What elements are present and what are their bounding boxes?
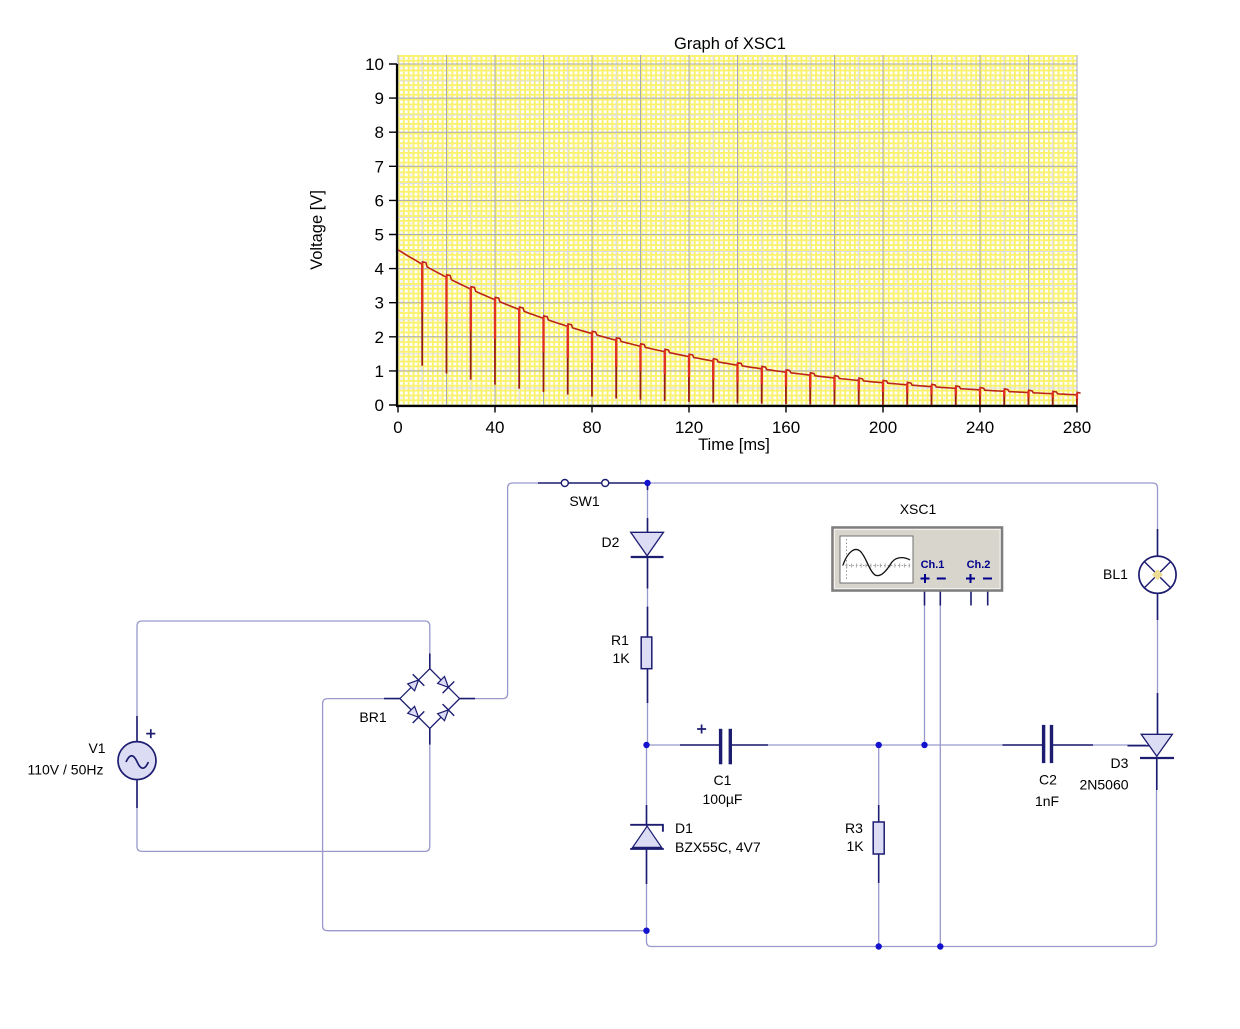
svg-text:Ch.1: Ch.1 — [921, 559, 945, 571]
svg-text:2N5060: 2N5060 — [1079, 777, 1128, 793]
svg-text:240: 240 — [966, 418, 994, 437]
svg-text:280: 280 — [1063, 418, 1091, 437]
svg-text:8: 8 — [375, 123, 384, 142]
svg-text:D1: D1 — [675, 820, 693, 836]
svg-text:160: 160 — [772, 418, 800, 437]
svg-text:1nF: 1nF — [1035, 793, 1059, 809]
svg-text:XSC1: XSC1 — [900, 501, 937, 517]
svg-text:BZX55C, 4V7: BZX55C, 4V7 — [675, 839, 761, 855]
svg-text:80: 80 — [583, 418, 602, 437]
svg-text:D3: D3 — [1111, 755, 1129, 771]
svg-text:BL1: BL1 — [1103, 566, 1128, 582]
svg-text:3: 3 — [375, 294, 384, 313]
svg-text:0: 0 — [393, 418, 402, 437]
svg-text:BR1: BR1 — [359, 709, 386, 725]
svg-text:100µF: 100µF — [703, 791, 743, 807]
svg-text:7: 7 — [375, 157, 384, 176]
svg-text:1: 1 — [375, 362, 384, 381]
svg-text:200: 200 — [869, 418, 897, 437]
svg-text:1K: 1K — [612, 650, 630, 666]
svg-text:Graph of XSC1: Graph of XSC1 — [674, 35, 786, 53]
svg-text:120: 120 — [675, 418, 703, 437]
svg-text:9: 9 — [375, 89, 384, 108]
svg-text:V1: V1 — [88, 740, 105, 756]
svg-text:5: 5 — [375, 226, 384, 245]
svg-text:Voltage [V]: Voltage [V] — [308, 190, 326, 270]
svg-text:R3: R3 — [845, 820, 863, 836]
svg-text:Time [ms]: Time [ms] — [698, 436, 770, 454]
svg-text:0: 0 — [375, 396, 384, 415]
svg-text:1K: 1K — [846, 838, 864, 854]
svg-text:C1: C1 — [714, 772, 732, 788]
svg-text:Ch.2: Ch.2 — [967, 559, 991, 571]
svg-text:4: 4 — [375, 260, 384, 279]
svg-text:2: 2 — [375, 328, 384, 347]
svg-text:R1: R1 — [611, 632, 629, 648]
svg-text:6: 6 — [375, 191, 384, 210]
svg-text:D2: D2 — [602, 534, 620, 550]
svg-text:SW1: SW1 — [569, 493, 600, 509]
svg-text:C2: C2 — [1039, 772, 1057, 788]
svg-text:10: 10 — [365, 55, 384, 74]
svg-text:110V / 50Hz: 110V / 50Hz — [27, 762, 103, 778]
svg-text:40: 40 — [486, 418, 505, 437]
